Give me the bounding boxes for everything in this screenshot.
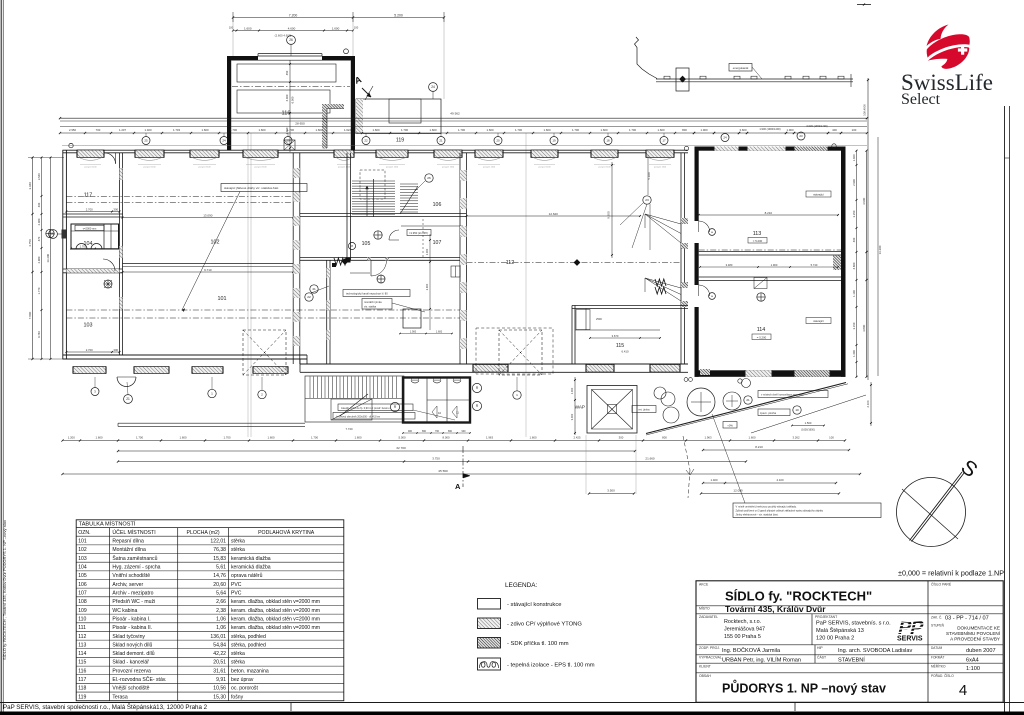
svg-text:keram. dlažba, obklad stěn v=2: keram. dlažba, obklad stěn v=2000 mm: [231, 599, 320, 605]
svg-text:2.700: 2.700: [86, 348, 93, 352]
svg-text:3.480: 3.480: [726, 263, 733, 267]
svg-text:900: 900: [462, 430, 467, 433]
svg-text:1.600: 1.600: [749, 435, 756, 439]
svg-text:3.150: 3.150: [852, 322, 856, 329]
svg-text:ČÁST: ČÁST: [817, 654, 826, 659]
svg-text:21: 21: [439, 139, 443, 143]
svg-text:107: 107: [78, 590, 87, 596]
svg-text:1.600: 1.600: [487, 128, 494, 132]
svg-text:OZN.: OZN.: [78, 530, 90, 536]
svg-text:4.000: 4.000: [285, 94, 289, 101]
svg-text:300: 300: [113, 207, 118, 211]
svg-text:1.600: 1.600: [180, 435, 187, 439]
svg-text:76,38: 76,38: [213, 547, 226, 553]
svg-text:stěrka: stěrka: [231, 539, 245, 545]
svg-text:Jímky elektronové - viz. stati: Jímky elektronové - viz. statická část.: [736, 512, 779, 516]
svg-text:4.900: 4.900: [862, 197, 866, 205]
svg-text:105: 105: [78, 573, 87, 579]
svg-text:3.500: 3.500: [607, 489, 615, 493]
svg-text:1.624: 1.624: [344, 128, 351, 132]
svg-text:3.670: 3.670: [612, 334, 619, 338]
svg-text:stěrka, podhled: stěrka, podhled: [231, 642, 266, 648]
svg-text:1.400: 1.400: [711, 478, 718, 482]
svg-text:45 560: 45 560: [438, 469, 448, 473]
svg-text:1:100: 1:100: [966, 666, 980, 672]
svg-text:1.963: 1.963: [705, 435, 712, 439]
svg-text:115: 115: [78, 660, 86, 666]
svg-text:ZADAVATEL: ZADAVATEL: [699, 615, 718, 619]
svg-text:zateplit +0,10 do h). 0,90 m z: zateplit +0,10 do h). 0,90 m z prostř. b…: [341, 407, 390, 410]
svg-text:parapet 1100: parapet 1100: [483, 165, 496, 168]
svg-text:105: 105: [362, 241, 371, 247]
svg-text:300: 300: [113, 348, 118, 352]
svg-text:28 650: 28 650: [295, 122, 305, 126]
svg-text:1.700: 1.700: [458, 128, 465, 132]
svg-text:119: 119: [78, 694, 86, 700]
svg-text:117: 117: [84, 193, 93, 199]
svg-text:2500: 2500: [596, 317, 602, 321]
svg-text:1: 1: [211, 392, 213, 396]
svg-text:A PROVEDENÍ STAVBY: A PROVEDENÍ STAVBY: [950, 636, 1000, 642]
svg-text:100: 100: [852, 128, 857, 132]
svg-text:PaP SERVIS, stavebni spole: PaP SERVIS, stavebni společnosti r.o., M…: [3, 704, 208, 711]
svg-text:- zdivo CP/ výplňové YTONG: - zdivo CP/ výplňové YTONG: [507, 622, 582, 628]
svg-text:1.400: 1.400: [852, 154, 856, 161]
svg-text:Archiv - mezipatro: Archiv - mezipatro: [112, 590, 153, 596]
svg-text:9,91: 9,91: [216, 677, 226, 683]
svg-text:SERVIS: SERVIS: [897, 635, 923, 642]
svg-text:WC kabina: WC kabina: [112, 608, 137, 614]
svg-text:stěrka: stěrka: [231, 651, 245, 657]
svg-text:2.700: 2.700: [86, 207, 93, 211]
svg-text:AKCE: AKCE: [699, 582, 709, 586]
svg-text:32 700: 32 700: [396, 446, 406, 450]
svg-text:108: 108: [78, 599, 87, 605]
svg-text:TABULKA MÍSTNOSTÍ: TABULKA MÍSTNOSTÍ: [79, 521, 136, 528]
svg-text:1.600: 1.600: [96, 435, 103, 439]
svg-text:11: 11: [456, 411, 459, 415]
svg-text:119: 119: [396, 138, 404, 144]
svg-text:Způsob podřízení uri 3 garož p: Způsob podřízení uri 3 garož přípojné od…: [736, 509, 824, 512]
svg-text:1.700: 1.700: [287, 128, 294, 132]
svg-text:HIP: HIP: [817, 646, 823, 650]
svg-text:21: 21: [126, 397, 130, 401]
svg-text:300: 300: [619, 435, 624, 439]
svg-text:118: 118: [78, 686, 86, 692]
svg-text:technologický kanál nepochozí: technologický kanál nepochozí tl. 80: [346, 292, 388, 296]
svg-text:14,76: 14,76: [213, 573, 226, 579]
svg-text:- SDK příčka tl. 100 mm: - SDK příčka tl. 100 mm: [507, 641, 569, 647]
svg-text:keram. dlažba, obklad stěn v=2: keram. dlažba, obklad stěn v=2000 mm: [231, 608, 320, 614]
svg-text:107: 107: [433, 240, 442, 246]
svg-text:800: 800: [662, 435, 667, 439]
svg-text:PŮDORYS 1. NP –nový stav: PŮDORYS 1. NP –nový stav: [722, 680, 886, 696]
svg-text:DOKUMENTACE KE: DOKUMENTACE KE: [957, 626, 1000, 631]
svg-text:1.700: 1.700: [80, 244, 87, 248]
svg-text:parapet 1100: parapet 1100: [654, 165, 667, 168]
svg-text:21: 21: [746, 398, 750, 402]
svg-text:viz. statika: viz. statika: [364, 304, 377, 308]
svg-text:17: 17: [662, 139, 666, 143]
svg-text:fošny: fošny: [231, 694, 244, 700]
svg-text:1.600: 1.600: [259, 128, 266, 132]
svg-text:20: 20: [496, 139, 500, 143]
svg-text:26: 26: [289, 38, 293, 42]
svg-text:SÍDLO fy. ROCKTECH , Tovární: SÍDLO fy. ROCKTECH , Tovární 435, Králův…: [2, 520, 7, 660]
svg-text:10: 10: [795, 408, 799, 412]
svg-text:101: 101: [218, 296, 227, 302]
svg-text:LEGENDA:: LEGENDA:: [505, 582, 538, 589]
svg-text:26: 26: [427, 176, 431, 180]
svg-text:= 5.200: = 5.200: [757, 335, 767, 339]
svg-text:1.207: 1.207: [119, 128, 126, 132]
svg-text:3.600 (1900/1400): 3.600 (1900/1400): [806, 124, 827, 128]
svg-text:1.600: 1.600: [316, 128, 323, 132]
svg-text:DATUM: DATUM: [931, 646, 942, 650]
svg-text:stěrka, podhled: stěrka, podhled: [231, 634, 266, 640]
svg-text:113: 113: [753, 231, 762, 237]
svg-text:900: 900: [408, 430, 413, 433]
svg-text:4.800: 4.800: [862, 324, 866, 332]
svg-text:Sklad tyčoviny: Sklad tyčoviny: [112, 634, 145, 640]
svg-text:2.900: 2.900: [425, 283, 429, 290]
svg-text:Ing. arch. SVOBODA Ladislav: Ing. arch. SVOBODA Ladislav: [838, 648, 913, 654]
svg-text:1.500: 1.500: [805, 421, 812, 425]
svg-text:ZAK. Č.: ZAK. Č.: [931, 615, 942, 620]
svg-text:Hyg. zázemí - sprcha: Hyg. zázemí - sprcha: [112, 564, 160, 570]
svg-text:12.620: 12.620: [549, 212, 559, 216]
svg-text:stěrka: stěrka: [231, 660, 245, 666]
svg-text:1.600: 1.600: [530, 435, 537, 439]
svg-text:100: 100: [829, 435, 834, 439]
svg-text:12.000: 12.000: [733, 489, 743, 493]
svg-text:103: 103: [84, 323, 93, 329]
svg-text:112: 112: [506, 260, 515, 266]
svg-text:FORMÁT: FORMÁT: [931, 655, 945, 659]
svg-text:V místě umístění jímek jsou po: V místě umístění jímek jsou použitý stáv…: [736, 504, 797, 508]
svg-text:Sklad - kancelář: Sklad - kancelář: [112, 660, 149, 666]
svg-text:1.600: 1.600: [601, 128, 608, 132]
svg-text:102: 102: [78, 547, 87, 553]
svg-text:= 5.200: = 5.200: [753, 239, 763, 243]
svg-text:109: 109: [78, 608, 87, 614]
svg-text:v místech dveří komunikace zpe: v místech dveří komunikace zpevněná: [761, 394, 804, 397]
svg-text:1.700: 1.700: [230, 128, 237, 132]
svg-text:20,60: 20,60: [213, 582, 226, 588]
svg-text:stávající jřábové dráhy viz. s: stávající jřábové dráhy viz. statická čá…: [224, 186, 278, 190]
svg-text:Pisoár - kabina I.: Pisoár - kabina I.: [112, 616, 150, 622]
svg-text:1.700: 1.700: [224, 435, 231, 439]
svg-text:parapet 1100: parapet 1100: [198, 165, 211, 168]
svg-text:SÍDLO fy. "ROCKTECH": SÍDLO fy. "ROCKTECH": [725, 589, 872, 604]
svg-text:3.540: 3.540: [37, 173, 41, 180]
svg-text:montážní jímka: montážní jímka: [364, 300, 382, 304]
svg-text:800: 800: [682, 128, 687, 132]
svg-text:ÚČEL MÍSTNOSTI: ÚČEL MÍSTNOSTI: [112, 529, 155, 536]
svg-text:1.600: 1.600: [202, 128, 209, 132]
svg-text:3.262: 3.262: [793, 435, 800, 439]
svg-text:5.100: 5.100: [647, 172, 651, 180]
svg-text:PVC: PVC: [231, 590, 242, 596]
svg-text:3.940: 3.940: [28, 182, 32, 190]
svg-text:116: 116: [78, 668, 86, 674]
svg-text:PLOCHA (m2): PLOCHA (m2): [187, 530, 220, 536]
svg-text:3.250: 3.250: [852, 210, 856, 217]
svg-text:Jeremiášova 947: Jeremiášova 947: [724, 627, 765, 633]
svg-text:108,4000: 108,4000: [863, 104, 867, 116]
svg-text:2: 2: [261, 393, 263, 397]
svg-text:1.600: 1.600: [332, 26, 340, 30]
svg-text:MÍSTO: MÍSTO: [699, 607, 710, 611]
svg-text:Sklad nových dílů: Sklad nových dílů: [112, 641, 152, 648]
svg-text:7.200: 7.200: [289, 13, 298, 17]
svg-text:1.600: 1.600: [268, 435, 275, 439]
svg-text:15,83: 15,83: [213, 556, 226, 562]
svg-text:2.950: 2.950: [69, 128, 76, 132]
svg-text:bez úprav: bez úprav: [231, 677, 254, 683]
svg-text:+0%: +0%: [727, 423, 733, 427]
svg-text:03 - PP - 714 / 07: 03 - PP - 714 / 07: [945, 616, 989, 622]
svg-text:101: 101: [78, 539, 87, 545]
svg-text:400: 400: [832, 128, 837, 132]
svg-text:24: 24: [431, 85, 435, 89]
svg-text:Tovární 435, Králův Dvůr: Tovární 435, Králův Dvůr: [725, 604, 826, 614]
svg-text:103: 103: [78, 556, 87, 562]
svg-text:STUPEŇ: STUPEŇ: [931, 624, 945, 628]
svg-text:1.703: 1.703: [173, 128, 180, 132]
svg-text:5.000: 5.000: [399, 435, 406, 439]
svg-text:8.210: 8.210: [755, 445, 763, 449]
svg-text:zpevn. plocha: zpevn. plocha: [760, 411, 777, 415]
svg-text:Provozní rezerva: Provozní rezerva: [112, 668, 151, 674]
svg-text:9.650: 9.650: [607, 211, 611, 219]
svg-text:parapet 1100: parapet 1100: [338, 165, 351, 168]
svg-text:1.600: 1.600: [355, 435, 362, 439]
svg-text:760: 760: [435, 430, 440, 433]
svg-text:1.963: 1.963: [486, 435, 493, 439]
svg-text:1.000: 1.000: [570, 387, 574, 394]
svg-text:ret. jímka: ret. jímka: [638, 408, 650, 412]
svg-text:- tepelná izolace - EPS tl. 10: - tepelná izolace - EPS tl. 100 mm: [507, 663, 595, 669]
svg-text:1.700: 1.700: [629, 128, 636, 132]
svg-text:Repasní dílna: Repasní dílna: [112, 539, 144, 545]
svg-text:STAVEBNÍ: STAVEBNÍ: [838, 656, 865, 663]
svg-text:114: 114: [757, 327, 766, 333]
svg-text:6xA4: 6xA4: [966, 657, 979, 663]
svg-text:ZODP. PROJ.: ZODP. PROJ.: [699, 646, 720, 650]
svg-text:STAVEBNÍMU POVOLENÍ: STAVEBNÍMU POVOLENÍ: [946, 630, 1001, 636]
svg-text:PODLAHOVÁ KRYTINA: PODLAHOVÁ KRYTINA: [258, 529, 315, 536]
svg-text:22: 22: [307, 295, 311, 299]
svg-text:1.700: 1.700: [311, 435, 318, 439]
svg-text:- stávající konstrukce: - stávající konstrukce: [507, 602, 561, 608]
svg-text:4: 4: [959, 682, 967, 699]
svg-text:1,06: 1,06: [216, 625, 226, 631]
svg-text:POŘAD. ČÍSLO: POŘAD. ČÍSLO: [931, 673, 954, 678]
svg-text:keram. dlažba, obklad stěn v=2: keram. dlažba, obklad stěn v=2000 mm: [231, 616, 320, 622]
svg-text:106: 106: [78, 582, 87, 588]
svg-text:Archiv, server: Archiv, server: [112, 582, 143, 588]
svg-text:23: 23: [286, 139, 290, 143]
svg-text:URBAN Petr, ing. VILÍM Roman: URBAN Petr, ing. VILÍM Roman: [722, 656, 801, 663]
svg-text:5,61: 5,61: [216, 564, 226, 570]
svg-text:WAP: WAP: [575, 405, 585, 410]
svg-text:parapet 1100: parapet 1100: [442, 165, 455, 168]
svg-text:21.660: 21.660: [645, 457, 655, 461]
svg-text:1.200: 1.200: [68, 435, 75, 439]
svg-text:duben 2007: duben 2007: [966, 648, 996, 654]
svg-text:1.770: 1.770: [37, 287, 41, 294]
svg-text:3.750: 3.750: [432, 457, 440, 461]
svg-text:VYPRACOVAL: VYPRACOVAL: [699, 655, 722, 659]
svg-text:v=2000 mm: v=2000 mm: [83, 226, 97, 230]
svg-text:5.740: 5.740: [811, 263, 818, 267]
svg-text:KLIENT: KLIENT: [699, 664, 711, 668]
svg-text:stávající: stávající: [813, 193, 824, 197]
svg-text:1.900: 1.900: [410, 330, 417, 333]
svg-text:20,51: 20,51: [213, 660, 226, 666]
svg-text:4.800: 4.800: [852, 262, 856, 269]
svg-text:parapet 1100: parapet 1100: [598, 165, 611, 168]
svg-text:energokanál: energokanál: [733, 66, 749, 70]
svg-text:(1600/1600): (1600/1600): [801, 429, 815, 432]
svg-text:Ing. BOČKOVÁ Jarmila: Ing. BOČKOVÁ Jarmila: [722, 647, 781, 654]
svg-text:2,38: 2,38: [216, 608, 226, 614]
svg-text:PVC: PVC: [231, 582, 242, 588]
svg-text:15,30: 15,30: [213, 694, 226, 700]
svg-text:stávající: stávající: [813, 319, 824, 323]
svg-text:10: 10: [438, 411, 442, 415]
svg-text:stěrka: stěrka: [231, 547, 245, 553]
svg-text:betonový obrubník 200x300 - dl: betonový obrubník 200x300 - dl. 4,5 bm: [336, 415, 380, 418]
svg-text:parapet 1100: parapet 1100: [84, 165, 97, 168]
svg-text:700: 700: [96, 128, 101, 132]
svg-text:1.400: 1.400: [852, 350, 856, 357]
svg-text:9.710: 9.710: [204, 268, 212, 272]
svg-text:OBSAH: OBSAH: [699, 674, 711, 678]
svg-text:8.210: 8.210: [765, 211, 773, 215]
svg-text:112: 112: [78, 634, 86, 640]
svg-text:120 00 Praha 2: 120 00 Praha 2: [816, 636, 854, 642]
svg-text:1.900: 1.900: [771, 263, 778, 267]
svg-text:5.200: 5.200: [394, 13, 403, 17]
svg-text:(2.600 4.600): (2.600 4.600): [275, 34, 292, 38]
svg-text:2.100: 2.100: [866, 400, 870, 407]
svg-text:parapet 1100: parapet 1100: [386, 165, 399, 168]
svg-text:1.600: 1.600: [436, 330, 443, 333]
svg-text:19: 19: [552, 139, 556, 143]
svg-text:100: 100: [354, 26, 359, 30]
svg-text:13.090: 13.090: [203, 213, 213, 217]
svg-text:49 562: 49 562: [450, 112, 460, 116]
svg-text:1.700: 1.700: [515, 128, 522, 132]
svg-text:111: 111: [78, 625, 86, 631]
svg-text:41: 41: [312, 287, 316, 291]
svg-text:keramická dlažba: keramická dlažba: [231, 556, 271, 562]
svg-text:=1.950 (2x DPI): =1.950 (2x DPI): [409, 231, 428, 235]
svg-text:Sklad demont. dílů: Sklad demont. dílů: [112, 650, 154, 657]
svg-text:PaP SERVIS, stavebnís. s r.o: PaP SERVIS, stavebnís. s r.o.: [816, 621, 891, 627]
svg-text:6.410: 6.410: [622, 350, 629, 354]
svg-text:1.600: 1.600: [244, 26, 252, 30]
svg-text:1.700: 1.700: [401, 128, 408, 132]
svg-text:1.600: 1.600: [544, 128, 551, 132]
svg-text:Montážní dílna: Montážní dílna: [112, 547, 146, 553]
svg-text:4.600: 4.600: [288, 26, 296, 30]
svg-text:13.200: 13.200: [46, 253, 50, 262]
svg-text:Šatna zaměstnanců: Šatna zaměstnanců: [112, 555, 157, 562]
svg-text:24: 24: [723, 136, 727, 140]
svg-text:113: 113: [78, 642, 86, 648]
svg-text:1.600: 1.600: [658, 128, 665, 132]
svg-text:31,61: 31,61: [213, 668, 226, 674]
svg-text:1.600: 1.600: [373, 128, 380, 132]
svg-text:7.740: 7.740: [346, 427, 353, 431]
svg-text:beton. mazanina: beton. mazanina: [231, 668, 269, 674]
svg-text:parapet 1100: parapet 1100: [254, 165, 267, 168]
svg-text:13.200: 13.200: [878, 245, 882, 254]
svg-text:keramická dlažba: keramická dlažba: [231, 564, 271, 570]
svg-text:1.600: 1.600: [430, 128, 437, 132]
svg-text:1.000: 1.000: [425, 248, 429, 255]
svg-text:parapet 1100: parapet 1100: [538, 165, 551, 168]
svg-text:8.000: 8.000: [443, 435, 450, 439]
svg-text:Předsíň WC - muži: Předsíň WC - muži: [112, 599, 155, 605]
svg-text:Vnitřní schodiště: Vnitřní schodiště: [112, 573, 150, 579]
svg-text:104: 104: [78, 564, 87, 570]
svg-text:5,64: 5,64: [216, 590, 226, 596]
svg-text:Pisoár - kabina II.: Pisoár - kabina II.: [112, 625, 152, 631]
svg-text:117: 117: [78, 677, 86, 683]
svg-text:1.100: 1.100: [852, 290, 856, 297]
svg-text:1.900 (1900/1400): 1.900 (1900/1400): [759, 127, 780, 131]
svg-text:110: 110: [78, 616, 86, 622]
svg-text:114: 114: [78, 651, 86, 657]
svg-text:400: 400: [37, 202, 41, 207]
svg-text:10,56: 10,56: [213, 686, 226, 692]
svg-text:keram. dlažba, obklad stěn v=2: keram. dlažba, obklad stěn v=2000 mm: [231, 625, 320, 631]
svg-text:PROJEKTANT: PROJEKTANT: [815, 615, 837, 619]
svg-text:3.000: 3.000: [570, 413, 574, 420]
svg-text:±0,000 = relativní k podlaze 1: ±0,000 = relativní k podlaze 1.NP: [898, 569, 1004, 578]
svg-text:860: 860: [422, 430, 427, 433]
svg-text:6.000: 6.000: [291, 96, 295, 103]
svg-text:Rocktech, s.r.o.: Rocktech, s.r.o.: [724, 619, 761, 625]
svg-text:4.100: 4.100: [777, 478, 784, 482]
svg-text:Select: Select: [901, 91, 941, 108]
svg-text:El.-rozvodna SČE- stáv.: El.-rozvodna SČE- stáv.: [112, 676, 166, 683]
svg-text:400: 400: [852, 237, 856, 242]
svg-text:oc. pororošt: oc. pororošt: [231, 686, 258, 692]
svg-text:parapet 1100: parapet 1100: [143, 165, 156, 168]
svg-text:155 00 Praha 5: 155 00 Praha 5: [724, 634, 761, 640]
svg-text:42,22: 42,22: [213, 651, 226, 657]
svg-text:2.425: 2.425: [574, 435, 581, 439]
svg-text:3.600: 3.600: [740, 128, 747, 132]
svg-text:450: 450: [285, 70, 289, 75]
svg-text:ČÍSLO PARÉ: ČÍSLO PARÉ: [931, 581, 952, 586]
svg-text:18: 18: [606, 139, 610, 143]
svg-text:1,06: 1,06: [216, 616, 226, 622]
svg-text:54,84: 54,84: [213, 642, 226, 648]
svg-text:2.900: 2.900: [852, 179, 856, 186]
svg-text:oprava nátěrů: oprava nátěrů: [231, 572, 263, 579]
svg-text:1: 1: [516, 393, 518, 397]
svg-text:2,66: 2,66: [216, 599, 226, 605]
svg-text:115: 115: [616, 343, 624, 349]
svg-text:23: 23: [799, 134, 803, 138]
svg-text:A: A: [455, 482, 461, 491]
